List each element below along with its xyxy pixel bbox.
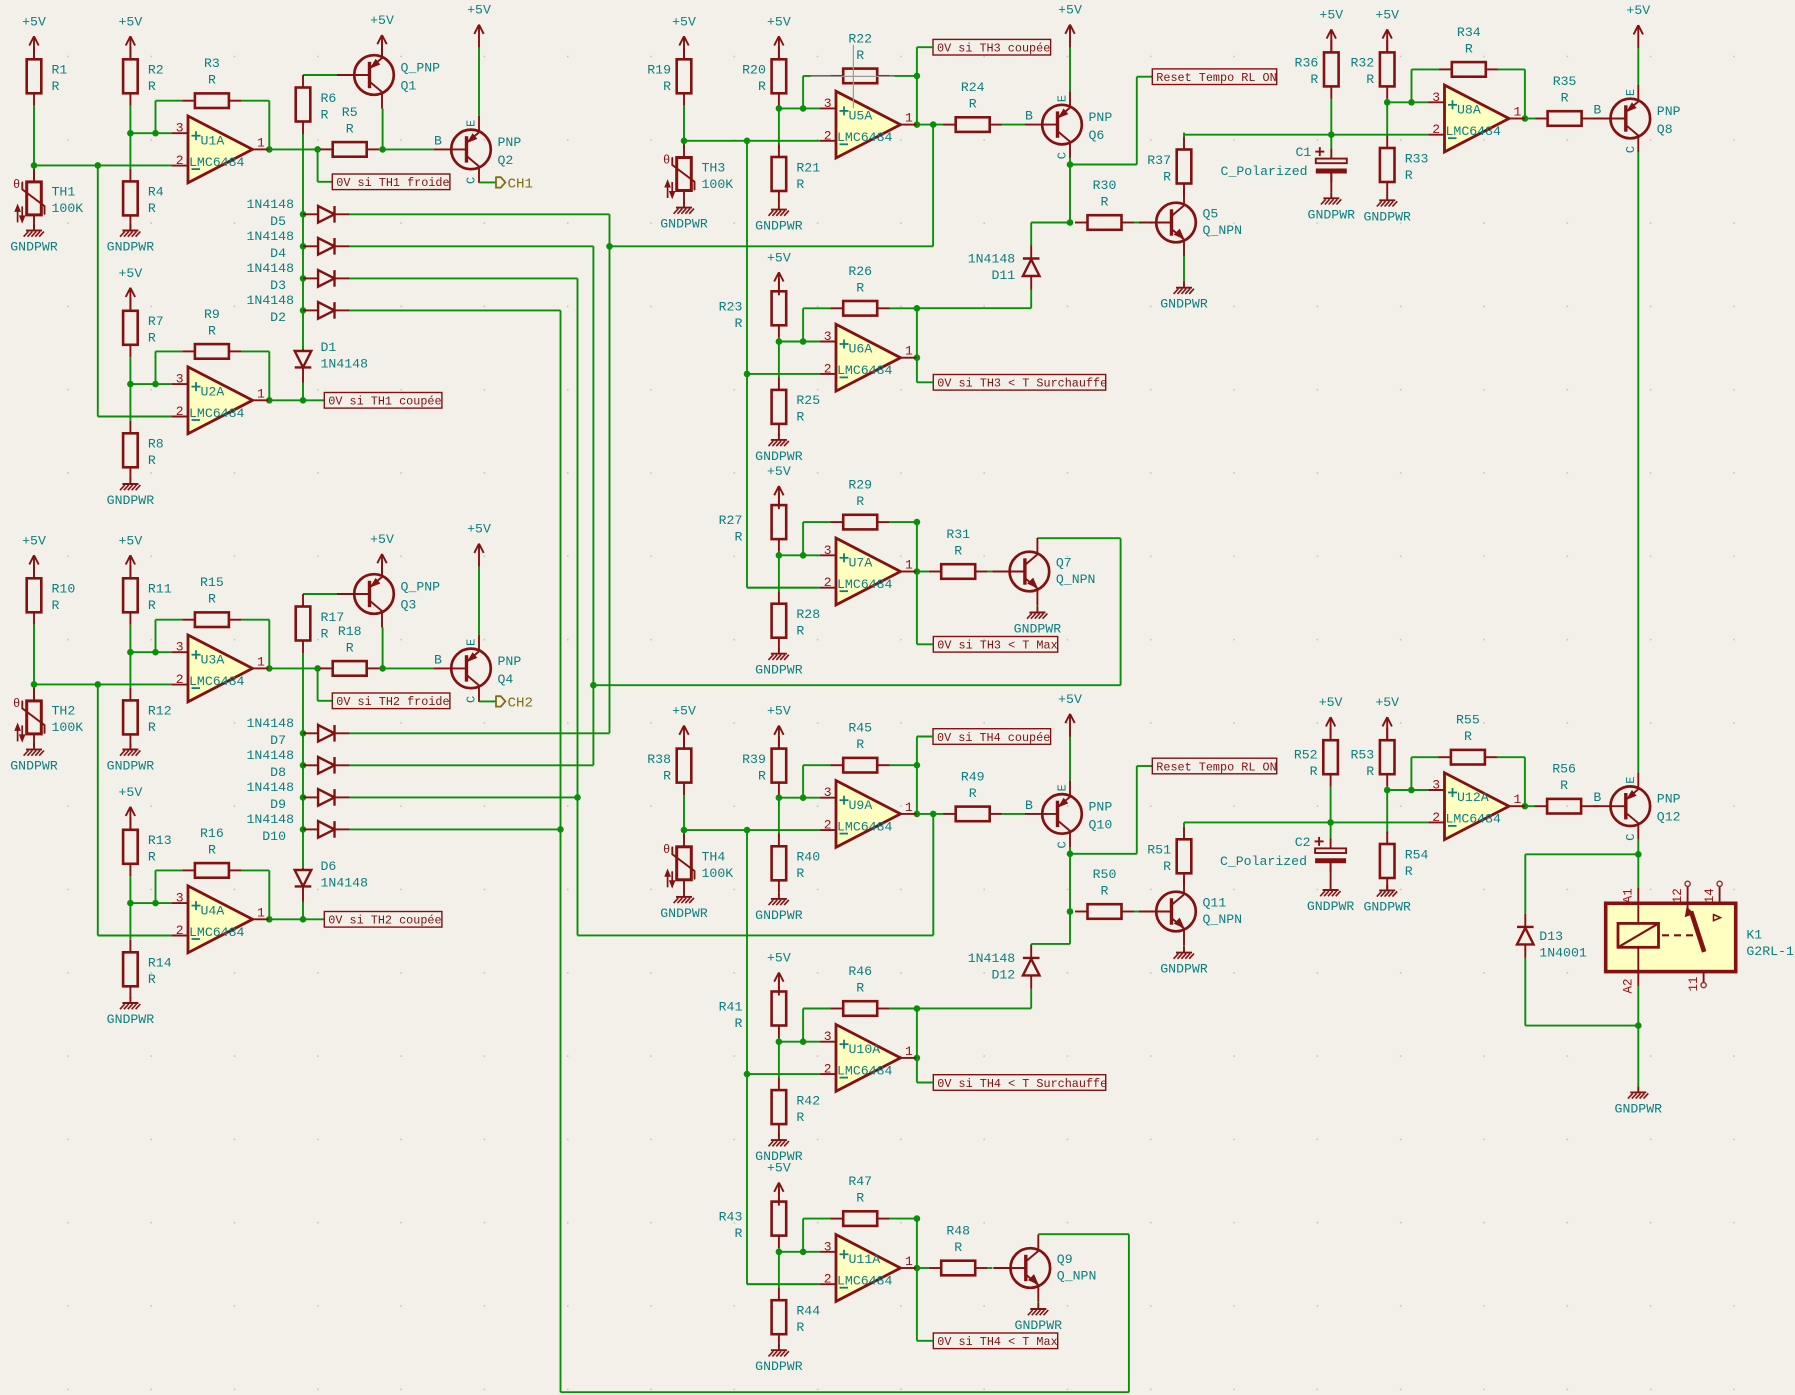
svg-text:PNP: PNP — [1089, 799, 1113, 814]
wire — [1330, 135, 1332, 149]
wire — [1030, 944, 1032, 945]
svg-text:2: 2 — [824, 575, 832, 590]
+5V power — [767, 464, 791, 509]
svg-text:3: 3 — [1432, 90, 1440, 105]
resistor R17 — [296, 594, 345, 653]
resistor R24 — [943, 80, 1002, 132]
svg-text:D8: D8 — [270, 765, 286, 780]
svg-text:LMC6484: LMC6484 — [837, 577, 892, 592]
resistor R3 — [182, 56, 241, 108]
stack junction — [300, 762, 307, 769]
svg-text:1: 1 — [257, 905, 265, 920]
label wire — [917, 643, 933, 645]
feedback junction — [152, 649, 159, 656]
resistor R36 — [1295, 40, 1339, 99]
TH3 node drop — [746, 141, 748, 374]
svg-text:C: C — [1624, 834, 1638, 841]
svg-text:C: C — [1056, 841, 1070, 848]
svg-text:GNDPWR: GNDPWR — [1160, 297, 1208, 312]
svg-text:D7: D7 — [270, 733, 286, 748]
svg-text:2: 2 — [824, 1062, 832, 1077]
svg-text:R23: R23 — [719, 299, 743, 314]
resistor R51 — [1147, 827, 1191, 886]
svg-text:R51: R51 — [1147, 843, 1171, 858]
thermistor TH2 — [13, 688, 83, 747]
resistor R22 — [831, 31, 890, 83]
svg-text:R: R — [856, 981, 864, 996]
svg-text:LMC6484: LMC6484 — [837, 363, 892, 378]
feedback junction — [914, 1005, 921, 1012]
transistor Q9 — [993, 1235, 1096, 1302]
feedback wire — [802, 765, 804, 798]
svg-text:θ: θ — [13, 178, 20, 192]
net wire D8 row — [350, 764, 594, 766]
resistor R27 — [719, 493, 787, 552]
+5V power — [672, 704, 696, 749]
label drop wire — [317, 668, 319, 700]
svg-text:Q7: Q7 — [1056, 556, 1072, 571]
svg-text:R: R — [796, 177, 804, 192]
GNDPWR ground — [755, 204, 803, 234]
svg-text:2: 2 — [824, 1272, 832, 1287]
wire — [302, 902, 304, 920]
feedback junction — [800, 338, 807, 345]
feedback junction — [914, 1215, 921, 1222]
net wire D4/D8 — [592, 246, 594, 765]
pin2 junction U10A — [744, 1071, 751, 1078]
svg-text:2: 2 — [176, 923, 184, 938]
svg-text:LMC6484: LMC6484 — [189, 155, 244, 170]
svg-text:Q12: Q12 — [1657, 810, 1681, 825]
transistor Q7 — [992, 538, 1095, 605]
svg-text:Q9: Q9 — [1057, 1252, 1073, 1267]
svg-text:R: R — [1101, 195, 1109, 210]
T-max TH4 wire — [1128, 1234, 1130, 1392]
wire — [33, 106, 35, 166]
collector wire — [1637, 840, 1639, 855]
svg-text:R24: R24 — [961, 80, 985, 95]
svg-text:TH1: TH1 — [52, 185, 76, 200]
svg-text:K1: K1 — [1746, 928, 1762, 943]
resistor R39 — [742, 736, 786, 795]
svg-text:GNDPWR: GNDPWR — [755, 663, 803, 678]
emitter wire — [478, 48, 480, 116]
feedback junction — [800, 552, 807, 559]
resistor R1 — [27, 47, 68, 106]
coupee TH3 row — [610, 245, 934, 247]
feedback wire — [156, 100, 183, 102]
net wire D2/D10 — [560, 310, 562, 1392]
svg-text:C: C — [1056, 152, 1070, 159]
svg-text:1N4148: 1N4148 — [321, 876, 369, 891]
svg-text:+5V: +5V — [119, 14, 143, 29]
+5V power — [119, 266, 143, 311]
svg-text:U6A: U6A — [849, 342, 873, 357]
resistor R6 — [296, 75, 337, 134]
svg-text:GNDPWR: GNDPWR — [755, 908, 803, 923]
feedback wire — [268, 101, 270, 150]
transistor Q11 — [1139, 878, 1242, 945]
wire — [1330, 822, 1332, 838]
pin3 junction — [776, 552, 783, 559]
feedback wire — [241, 100, 269, 102]
feedback wire — [802, 1219, 804, 1252]
svg-text:R7: R7 — [148, 314, 164, 329]
svg-text:+5V: +5V — [119, 266, 143, 281]
svg-text:GNDPWR: GNDPWR — [755, 219, 803, 234]
feedback junction — [1408, 99, 1415, 106]
resistor R29 — [831, 478, 890, 530]
thermistor TH3 — [663, 145, 733, 204]
svg-text:U2A: U2A — [201, 384, 225, 399]
coupee TH4 wire — [578, 934, 934, 936]
TH3 node drop — [746, 374, 748, 588]
feedback wire — [1411, 69, 1413, 102]
svg-text:G2RL-1: G2RL-1 — [1746, 944, 1794, 959]
feedback wire — [241, 350, 269, 352]
svg-text:R6: R6 — [321, 91, 337, 106]
pin3 junction — [776, 105, 783, 112]
svg-text:2: 2 — [176, 153, 184, 168]
svg-text:R: R — [856, 1191, 864, 1206]
GNDPWR ground — [10, 225, 58, 255]
label box "Reset Tempo RL ON" — [1152, 69, 1276, 85]
output wire — [917, 124, 944, 126]
svg-text:1: 1 — [905, 111, 913, 126]
label box "0V si TH1 froide" — [332, 174, 450, 190]
GNDPWR ground — [1308, 192, 1356, 222]
label wire — [917, 736, 933, 738]
emitter wire — [1069, 48, 1071, 92]
pin3 junction — [127, 649, 134, 656]
resistor R37 — [1147, 137, 1191, 196]
resistor R49 — [943, 769, 1002, 821]
junction — [1067, 219, 1074, 226]
feedback wire — [803, 1218, 831, 1220]
svg-text:R32: R32 — [1350, 56, 1374, 71]
svg-text:LMC6484: LMC6484 — [189, 674, 244, 689]
hierarchical label CH2 — [496, 695, 533, 711]
svg-text:θ: θ — [663, 843, 670, 857]
GNDPWR ground — [10, 744, 58, 774]
label wire — [916, 47, 918, 76]
svg-text:R: R — [148, 79, 156, 94]
output junction — [266, 397, 273, 404]
feedback wire — [916, 308, 918, 357]
base wire — [1594, 805, 1599, 807]
transistor Q3 — [337, 561, 440, 628]
svg-text:LMC6484: LMC6484 — [189, 406, 244, 421]
transistor Q4 — [434, 635, 521, 703]
svg-text:R: R — [208, 842, 216, 857]
wire — [33, 165, 35, 182]
label wire — [916, 358, 918, 383]
svg-text:R56: R56 — [1552, 762, 1576, 777]
collector wire Q8-Q12 — [1637, 152, 1639, 773]
resistor R18 — [320, 624, 379, 676]
feedback wire — [1524, 757, 1526, 806]
feedback wire — [889, 307, 917, 309]
emitter wire — [478, 567, 480, 635]
feedback wire — [916, 1219, 918, 1268]
pin3 junction — [776, 338, 783, 345]
feedback wire — [1524, 69, 1526, 118]
capacitor C2 — [1220, 835, 1346, 872]
pin2 wire — [98, 416, 172, 418]
collector junction — [379, 146, 386, 153]
svg-text:R: R — [1163, 169, 1171, 184]
feedback junction — [800, 1038, 807, 1045]
svg-text:A1: A1 — [1622, 888, 1636, 903]
stack junction — [300, 211, 307, 218]
output junction — [266, 916, 273, 923]
A2 wire — [1637, 986, 1639, 1025]
+5V power — [22, 14, 46, 59]
+5V power — [119, 533, 143, 578]
svg-text:R: R — [1101, 884, 1109, 899]
svg-text:0V si TH3 < T Max: 0V si TH3 < T Max — [937, 639, 1057, 653]
node wire — [684, 140, 820, 142]
resistor R50 — [1075, 867, 1134, 919]
gnd wire — [1637, 1026, 1639, 1087]
svg-text:GNDPWR: GNDPWR — [1615, 1101, 1663, 1116]
stack junction — [300, 794, 307, 801]
reset wire — [1070, 164, 1137, 166]
svg-text:R: R — [1366, 764, 1374, 779]
svg-text:R: R — [321, 626, 329, 641]
resistor R15 — [182, 575, 241, 627]
svg-text:100K: 100K — [702, 177, 734, 192]
pin3 junction — [1384, 787, 1391, 794]
svg-text:3: 3 — [824, 96, 832, 111]
output junction — [266, 665, 273, 672]
svg-text:3: 3 — [176, 891, 184, 906]
resistor R31 — [929, 527, 988, 579]
GNDPWR ground — [1160, 947, 1208, 977]
junction D3/D9 net — [574, 794, 581, 801]
svg-text:R35: R35 — [1553, 74, 1577, 89]
svg-text:B: B — [434, 133, 442, 148]
feedback wire — [916, 522, 918, 571]
svg-text:R55: R55 — [1456, 713, 1480, 728]
GNDPWR ground — [107, 744, 155, 774]
svg-text:PNP: PNP — [1657, 104, 1681, 119]
svg-text:+5V: +5V — [467, 522, 491, 537]
hier wire — [479, 700, 496, 702]
thermistor TH4 — [663, 834, 733, 893]
wire — [778, 1042, 780, 1078]
resistor R30 — [1075, 178, 1134, 230]
+5V power — [1058, 3, 1082, 48]
svg-text:R54: R54 — [1405, 847, 1429, 862]
emitter wire — [1037, 1302, 1039, 1304]
op-amp U4A — [172, 886, 269, 953]
base wire — [303, 74, 337, 76]
node junction — [31, 681, 38, 688]
T-max TH3 wire — [593, 684, 1120, 686]
feedback wire — [889, 75, 917, 77]
resistor R55 — [1438, 713, 1497, 765]
svg-text:Q_NPN: Q_NPN — [1203, 223, 1243, 238]
+5V power — [1626, 3, 1650, 48]
feedback wire — [268, 870, 270, 919]
svg-text:LMC6484: LMC6484 — [1446, 124, 1501, 139]
D13 wire — [1524, 958, 1526, 1026]
svg-text:U4A: U4A — [201, 903, 225, 918]
svg-text:R: R — [734, 530, 742, 545]
svg-text:+5V: +5V — [370, 13, 394, 28]
svg-text:R: R — [1405, 168, 1413, 183]
svg-text:LMC6484: LMC6484 — [837, 1274, 892, 1289]
net wire D2 row — [350, 309, 561, 311]
pin3 wire — [1387, 101, 1428, 103]
T-max TH4 wire — [1038, 1233, 1129, 1235]
op-amp U9A — [820, 781, 917, 848]
base wire — [1002, 813, 1025, 815]
hierarchical label CH1 — [496, 176, 533, 192]
+5V power — [1319, 695, 1343, 740]
svg-text:R27: R27 — [719, 513, 743, 528]
svg-text:R13: R13 — [148, 833, 172, 848]
pin2 wire — [747, 373, 820, 375]
GNDPWR ground — [1615, 1086, 1663, 1116]
output junction 2 — [930, 121, 937, 128]
op-amp U11A — [820, 1235, 917, 1302]
feedback wire — [803, 521, 831, 523]
op-amp U1A — [172, 116, 269, 183]
feedback junction — [800, 794, 807, 801]
output junction — [266, 146, 273, 153]
transistor Q2 — [434, 116, 521, 184]
wire — [778, 342, 780, 378]
svg-text:U9A: U9A — [849, 798, 873, 813]
GNDPWR ground — [660, 202, 708, 232]
label box "0V si TH4 coupée" — [933, 729, 1051, 745]
svg-text:D11: D11 — [991, 268, 1015, 283]
svg-text:E: E — [1056, 784, 1070, 791]
GNDPWR ground — [755, 1344, 803, 1374]
label box "0V si TH4 < T Max" — [933, 1333, 1057, 1349]
svg-text:C: C — [1624, 146, 1638, 153]
svg-text:12: 12 — [1671, 888, 1685, 903]
stack wire — [302, 653, 304, 868]
TH4 node drop — [746, 830, 748, 1074]
svg-text:R19: R19 — [647, 63, 671, 78]
svg-text:R2: R2 — [148, 63, 164, 78]
stack wire — [302, 134, 304, 349]
label box "0V si TH1 coupée" — [324, 393, 442, 409]
collector junction — [1067, 161, 1074, 168]
node drop junction — [95, 681, 102, 688]
reset wire — [1136, 766, 1138, 854]
resistor R8 — [123, 421, 164, 480]
svg-text:C: C — [465, 177, 479, 184]
svg-text:TH3: TH3 — [702, 160, 726, 175]
reset wire — [1137, 765, 1153, 767]
output junction — [914, 1055, 921, 1062]
A2 junction — [1635, 1022, 1642, 1029]
+5V power — [119, 785, 143, 830]
svg-text:3: 3 — [176, 121, 184, 136]
pin2 wire — [98, 935, 172, 937]
+5V power — [1058, 692, 1082, 737]
GNDPWR ground — [1014, 607, 1062, 637]
output wire — [269, 667, 320, 669]
svg-text:D4: D4 — [270, 246, 286, 261]
node junction — [31, 162, 38, 169]
feedback wire — [1498, 68, 1525, 70]
svg-text:R29: R29 — [848, 478, 872, 493]
node junction — [681, 138, 688, 145]
output wire — [269, 918, 324, 920]
wire — [1183, 822, 1185, 826]
GNDPWR ground — [1015, 1303, 1063, 1333]
feedback junction — [152, 381, 159, 388]
svg-text:R8: R8 — [148, 437, 164, 452]
pin3 junction — [127, 381, 134, 388]
output junction — [300, 397, 307, 404]
resistor R4 — [123, 169, 164, 228]
svg-text:GNDPWR: GNDPWR — [660, 217, 708, 232]
base wire — [1134, 222, 1139, 224]
svg-text:0V si TH4 coupée: 0V si TH4 coupée — [937, 731, 1050, 745]
T-max TH3 wire — [1120, 538, 1122, 685]
svg-text:GNDPWR: GNDPWR — [107, 1012, 155, 1027]
junction R36/C1 — [1328, 131, 1335, 138]
resistor R11 — [123, 566, 172, 625]
wire — [683, 106, 685, 141]
relay pin A1 — [1637, 888, 1639, 903]
base wire — [1002, 124, 1025, 126]
resistor R46 — [831, 964, 890, 1016]
GNDPWR ground — [1363, 194, 1411, 224]
svg-text:Q1: Q1 — [401, 79, 417, 94]
D13 wire — [1524, 854, 1526, 914]
feedback junction — [914, 762, 921, 769]
feedback wire — [803, 1008, 831, 1010]
emitter wire — [1183, 945, 1185, 947]
emitter wire — [1637, 48, 1639, 85]
svg-text:R40: R40 — [796, 850, 820, 865]
svg-text:+5V: +5V — [1375, 7, 1399, 22]
GNDPWR ground — [660, 891, 708, 921]
svg-text:R43: R43 — [719, 1210, 743, 1225]
pin3 junction — [127, 900, 134, 907]
hier wire — [479, 181, 496, 183]
feedback wire — [802, 76, 804, 109]
svg-text:14: 14 — [1703, 888, 1717, 903]
net wire D7 row — [350, 732, 610, 734]
feedback wire — [241, 619, 269, 621]
svg-text:CH2: CH2 — [508, 695, 534, 711]
emitter wire — [1183, 256, 1185, 282]
svg-text:R25: R25 — [796, 393, 820, 408]
svg-text:GNDPWR: GNDPWR — [1308, 207, 1356, 222]
svg-text:E: E — [465, 120, 479, 127]
output junction — [914, 1265, 921, 1272]
wire — [1030, 989, 1032, 1009]
svg-text:1N4148: 1N4148 — [247, 812, 295, 827]
label wire — [917, 1340, 933, 1342]
svg-text:GNDPWR: GNDPWR — [10, 759, 58, 774]
+5V power — [767, 250, 791, 295]
svg-text:Reset Tempo RL ON: Reset Tempo RL ON — [1156, 71, 1276, 85]
svg-text:D1: D1 — [321, 340, 337, 355]
svg-text:R: R — [346, 640, 354, 655]
feedback wire — [1412, 68, 1440, 70]
collector wire — [382, 628, 384, 669]
svg-text:R: R — [1405, 864, 1413, 879]
